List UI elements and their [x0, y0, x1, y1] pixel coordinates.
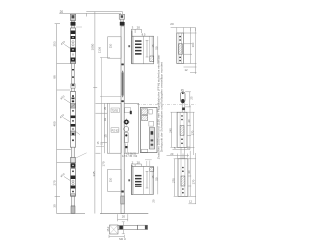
svg-text:400: 400: [52, 121, 56, 126]
svg-text:110: 110: [108, 43, 112, 48]
lower case right dimension: [157, 166, 159, 194]
follower: [123, 119, 130, 126]
svg-text:LZ 92/35: LZ 92/35: [127, 153, 137, 156]
svg-text:20: 20: [152, 199, 156, 203]
main lock body: [107, 103, 121, 153]
svg-text:110: 110: [108, 177, 112, 182]
svg-text:1136: 1136: [97, 46, 101, 53]
svg-text:50: 50: [154, 177, 158, 181]
detail D faceplate: [178, 159, 188, 197]
left rail end piece: [71, 206, 75, 213]
detail C right chain: [187, 105, 195, 155]
left dimension chain: [55, 24, 71, 214]
detail D right chain: [188, 151, 196, 204]
detail A top dimension: [171, 28, 196, 34]
main keep: [140, 107, 157, 152]
center upper case latch dimension: [131, 29, 142, 36]
center rail: [119, 14, 124, 213]
svg-text:253: 253: [52, 41, 56, 46]
svg-text:1050: 1050: [91, 43, 95, 50]
svg-text:270: 270: [52, 180, 56, 185]
center upper case: [132, 31, 154, 65]
center lower case: [132, 160, 154, 195]
bottom section view: [109, 222, 148, 240]
leader scale mark: [76, 153, 86, 158]
left rail top roller unit: [70, 14, 82, 28]
main lock small top detail: [125, 108, 131, 113]
svg-text:100: 100: [191, 42, 195, 47]
svg-text:92: 92: [103, 118, 107, 122]
main lock front: [124, 103, 138, 153]
left baseline: [57, 213, 85, 215]
detail C left dimension: [171, 112, 178, 147]
svg-text:20: 20: [170, 22, 174, 26]
svg-text:50: 50: [154, 46, 158, 50]
center upper body: [108, 37, 131, 58]
detail D left dimension: [174, 159, 178, 197]
svg-text:25: 25: [190, 96, 194, 100]
leader d10 upper: [64, 44, 70, 48]
detail B roller bolt: [181, 92, 185, 112]
faceplate width dimension: [118, 214, 128, 221]
svg-text:25.2: 25.2: [107, 226, 110, 231]
svg-text:15: 15: [104, 134, 108, 138]
svg-text:20: 20: [122, 215, 126, 219]
lower case latch dimension: [131, 164, 142, 168]
svg-text:Drehpunkt der Schwenkhaken und: Drehpunkt der Schwenkhaken und Rollzapfe…: [160, 62, 164, 152]
sub dimension line x104: [96, 103, 108, 153]
detail B dimension: [185, 92, 191, 107]
left roller unit 2: [70, 158, 75, 168]
svg-text:35: 35: [103, 107, 107, 111]
svg-text:30: 30: [52, 204, 56, 208]
center lower body: [108, 169, 131, 191]
svg-text:88: 88: [52, 75, 56, 79]
left rail segment 2: [71, 147, 74, 157]
cylinder: [124, 127, 129, 154]
svg-text:72/92: 72/92: [112, 109, 119, 113]
svg-text:40: 40: [187, 170, 191, 174]
overall height dimension line: [93, 12, 97, 214]
svg-text:20: 20: [137, 26, 141, 30]
svg-text:245: 245: [168, 128, 172, 133]
auxiliary dimension line x101.5: [96, 58, 121, 214]
detail C faceplate: [177, 112, 187, 147]
svg-text:12: 12: [185, 68, 189, 72]
top dimension line: [59, 12, 122, 17]
connector rail C to D: [181, 147, 185, 163]
leader d10 mid: [64, 99, 70, 103]
left rail segment 1: [71, 64, 75, 92]
left lock case 2: [70, 92, 75, 148]
detail A faceplate: [177, 33, 184, 64]
svg-text:20: 20: [60, 10, 64, 14]
svg-text:170: 170: [101, 161, 105, 166]
svg-text:15: 15: [151, 44, 155, 48]
svg-text:245: 245: [92, 171, 96, 176]
svg-text:170: 170: [191, 130, 195, 135]
left rail bottom segment: [71, 196, 74, 206]
svg-text:12: 12: [189, 200, 193, 204]
center baseline: [100, 213, 148, 215]
leader lower-right: [76, 132, 80, 135]
detail A right chain: [184, 28, 197, 75]
C-D dimension: [167, 150, 191, 159]
leader d10 lower: [64, 177, 70, 181]
svg-text:170: 170: [192, 179, 196, 184]
left lock case 3: [70, 169, 75, 197]
svg-text:15: 15: [151, 175, 155, 179]
svg-text:20: 20: [137, 160, 141, 164]
leader d10 mid2: [63, 118, 70, 122]
svg-text:270: 270: [172, 178, 176, 183]
svg-text:8.5: 8.5: [142, 33, 146, 37]
svg-text:PZ 92: PZ 92: [112, 128, 119, 132]
upper case right dimension: [157, 36, 159, 64]
dashed centre line: [137, 104, 196, 106]
left lock case 1: [70, 28, 75, 64]
svg-text:40: 40: [187, 119, 191, 123]
